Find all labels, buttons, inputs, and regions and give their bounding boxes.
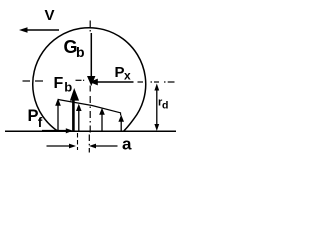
- pressure distribution envelope: [58, 100, 121, 116]
- dimension r_d shaft: [156, 88, 158, 126]
- horizontal centerline (dash-dot) left part: [23, 79, 85, 82]
- svg-text:V: V: [45, 7, 55, 24]
- svg-text:d: d: [162, 100, 168, 112]
- svg-text:P: P: [115, 64, 125, 81]
- pressure arrow 2: [76, 104, 82, 131]
- rolling resistance arrow P_f: [42, 128, 73, 133]
- svg-text:F: F: [54, 75, 64, 92]
- ground line: [5, 130, 176, 132]
- svg-text:b: b: [76, 44, 85, 60]
- horizontal centerline (dash-dot) right part: [138, 81, 175, 83]
- dimension a: left arrow: [47, 144, 77, 149]
- r_d top arrowhead: [154, 84, 159, 91]
- dashed extension line under F_b: [77, 133, 79, 150]
- svg-text:f: f: [38, 115, 43, 130]
- pressure arrow 4: [118, 115, 124, 131]
- pressure arrow 3: [99, 108, 105, 131]
- dimension a: right arrow: [89, 144, 118, 149]
- svg-text:x: x: [124, 69, 131, 83]
- svg-text:b: b: [64, 80, 72, 95]
- weight force arrow G_b: [87, 33, 95, 86]
- svg-text:a: a: [122, 135, 132, 154]
- vertical centerline (dash-dot): [88, 21, 91, 153]
- resultant vertical force F_b (bold arrow): [70, 88, 79, 131]
- force arrow P_x: [90, 79, 134, 86]
- tire outline (wheel circle with flattened contact): [33, 28, 146, 132]
- pressure arrow 1: [55, 98, 61, 131]
- velocity arrow V: [19, 27, 59, 33]
- r_d bottom arrowhead: [154, 124, 159, 131]
